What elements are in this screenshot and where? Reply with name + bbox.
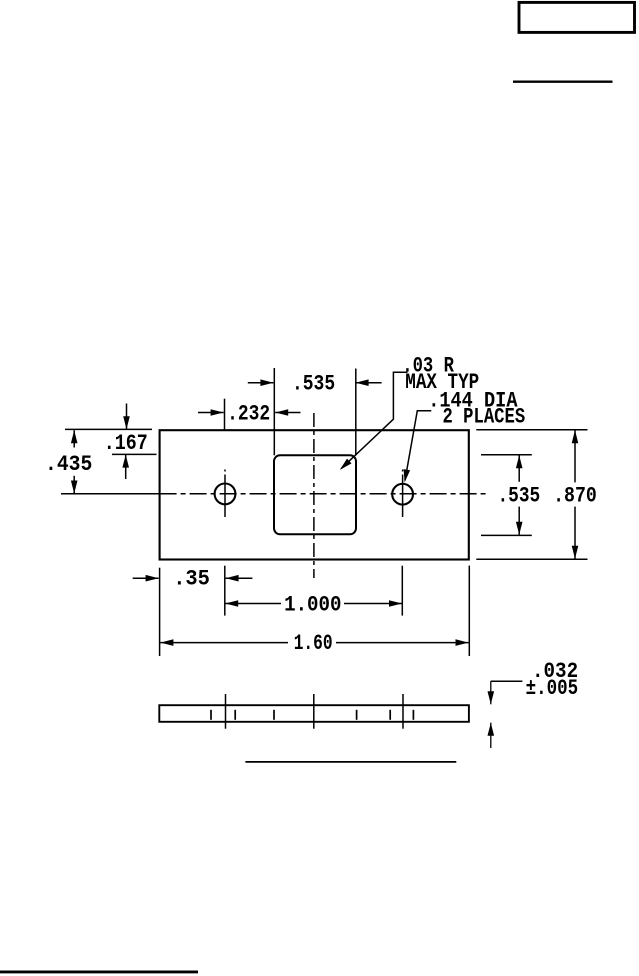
extension line .535-right top [481, 454, 532, 456]
dimension .535 top [248, 382, 274, 384]
vertical centerline hole right [402, 470, 404, 472]
dimension .032 thickness [491, 680, 523, 682]
dimension 1.60 [160, 642, 288, 644]
extension line cutout right [355, 369, 357, 456]
side view hidden-edge ticks [210, 710, 212, 720]
svg-text:.232: .232 [227, 402, 270, 427]
svg-text:.435: .435 [45, 452, 92, 477]
extension line below plate left [159, 568, 161, 656]
extension line right bottom [476, 558, 587, 560]
hole right [392, 484, 413, 505]
square cutout [274, 455, 356, 534]
vertical centerline hole left [224, 470, 226, 472]
dimension .870 [574, 430, 576, 482]
dimension .35 [133, 577, 159, 579]
extension line .535-right bottom [481, 534, 532, 536]
svg-text:.535: .535 [498, 483, 541, 508]
dimension .535 right [518, 455, 520, 482]
svg-text:.35: .35 [173, 566, 210, 591]
extension line below plate right [468, 566, 470, 656]
extension line hole-left center above plate [224, 399, 226, 430]
title underline (top right) [513, 80, 613, 82]
leader .03 R MAX TYP [341, 372, 407, 468]
svg-text:.167: .167 [104, 431, 148, 456]
plate outline [160, 430, 469, 559]
side view outline [159, 705, 469, 722]
leader .144 DIA 2 PLACES [405, 411, 431, 481]
extension line right top [476, 429, 587, 431]
svg-text:1.000: 1.000 [284, 593, 341, 618]
dimension .232 [198, 412, 224, 414]
title box (empty, top right) [519, 2, 635, 32]
dimension .167 [126, 404, 128, 430]
svg-text:.535: .535 [292, 372, 335, 397]
hole left [215, 484, 236, 505]
footer bar bottom left [0, 970, 198, 973]
dimension .435 [73, 430, 75, 447]
svg-text:±.005: ±.005 [526, 676, 579, 701]
extension line below hole left [224, 566, 226, 616]
figure caption underline [245, 761, 456, 763]
horizontal centerline [61, 493, 160, 495]
extension line .167 lower [112, 453, 157, 455]
dimension 1.000 [225, 603, 281, 605]
svg-text:2 PLACES: 2 PLACES [443, 405, 526, 430]
vertical centerline middle [313, 413, 315, 578]
side view centerlines [225, 694, 227, 729]
svg-text:.870: .870 [553, 483, 597, 508]
extension line below hole right [401, 566, 403, 616]
extension line cutout left [273, 368, 275, 455]
svg-text:1.60: 1.60 [294, 631, 333, 656]
extension line top left [65, 428, 152, 430]
